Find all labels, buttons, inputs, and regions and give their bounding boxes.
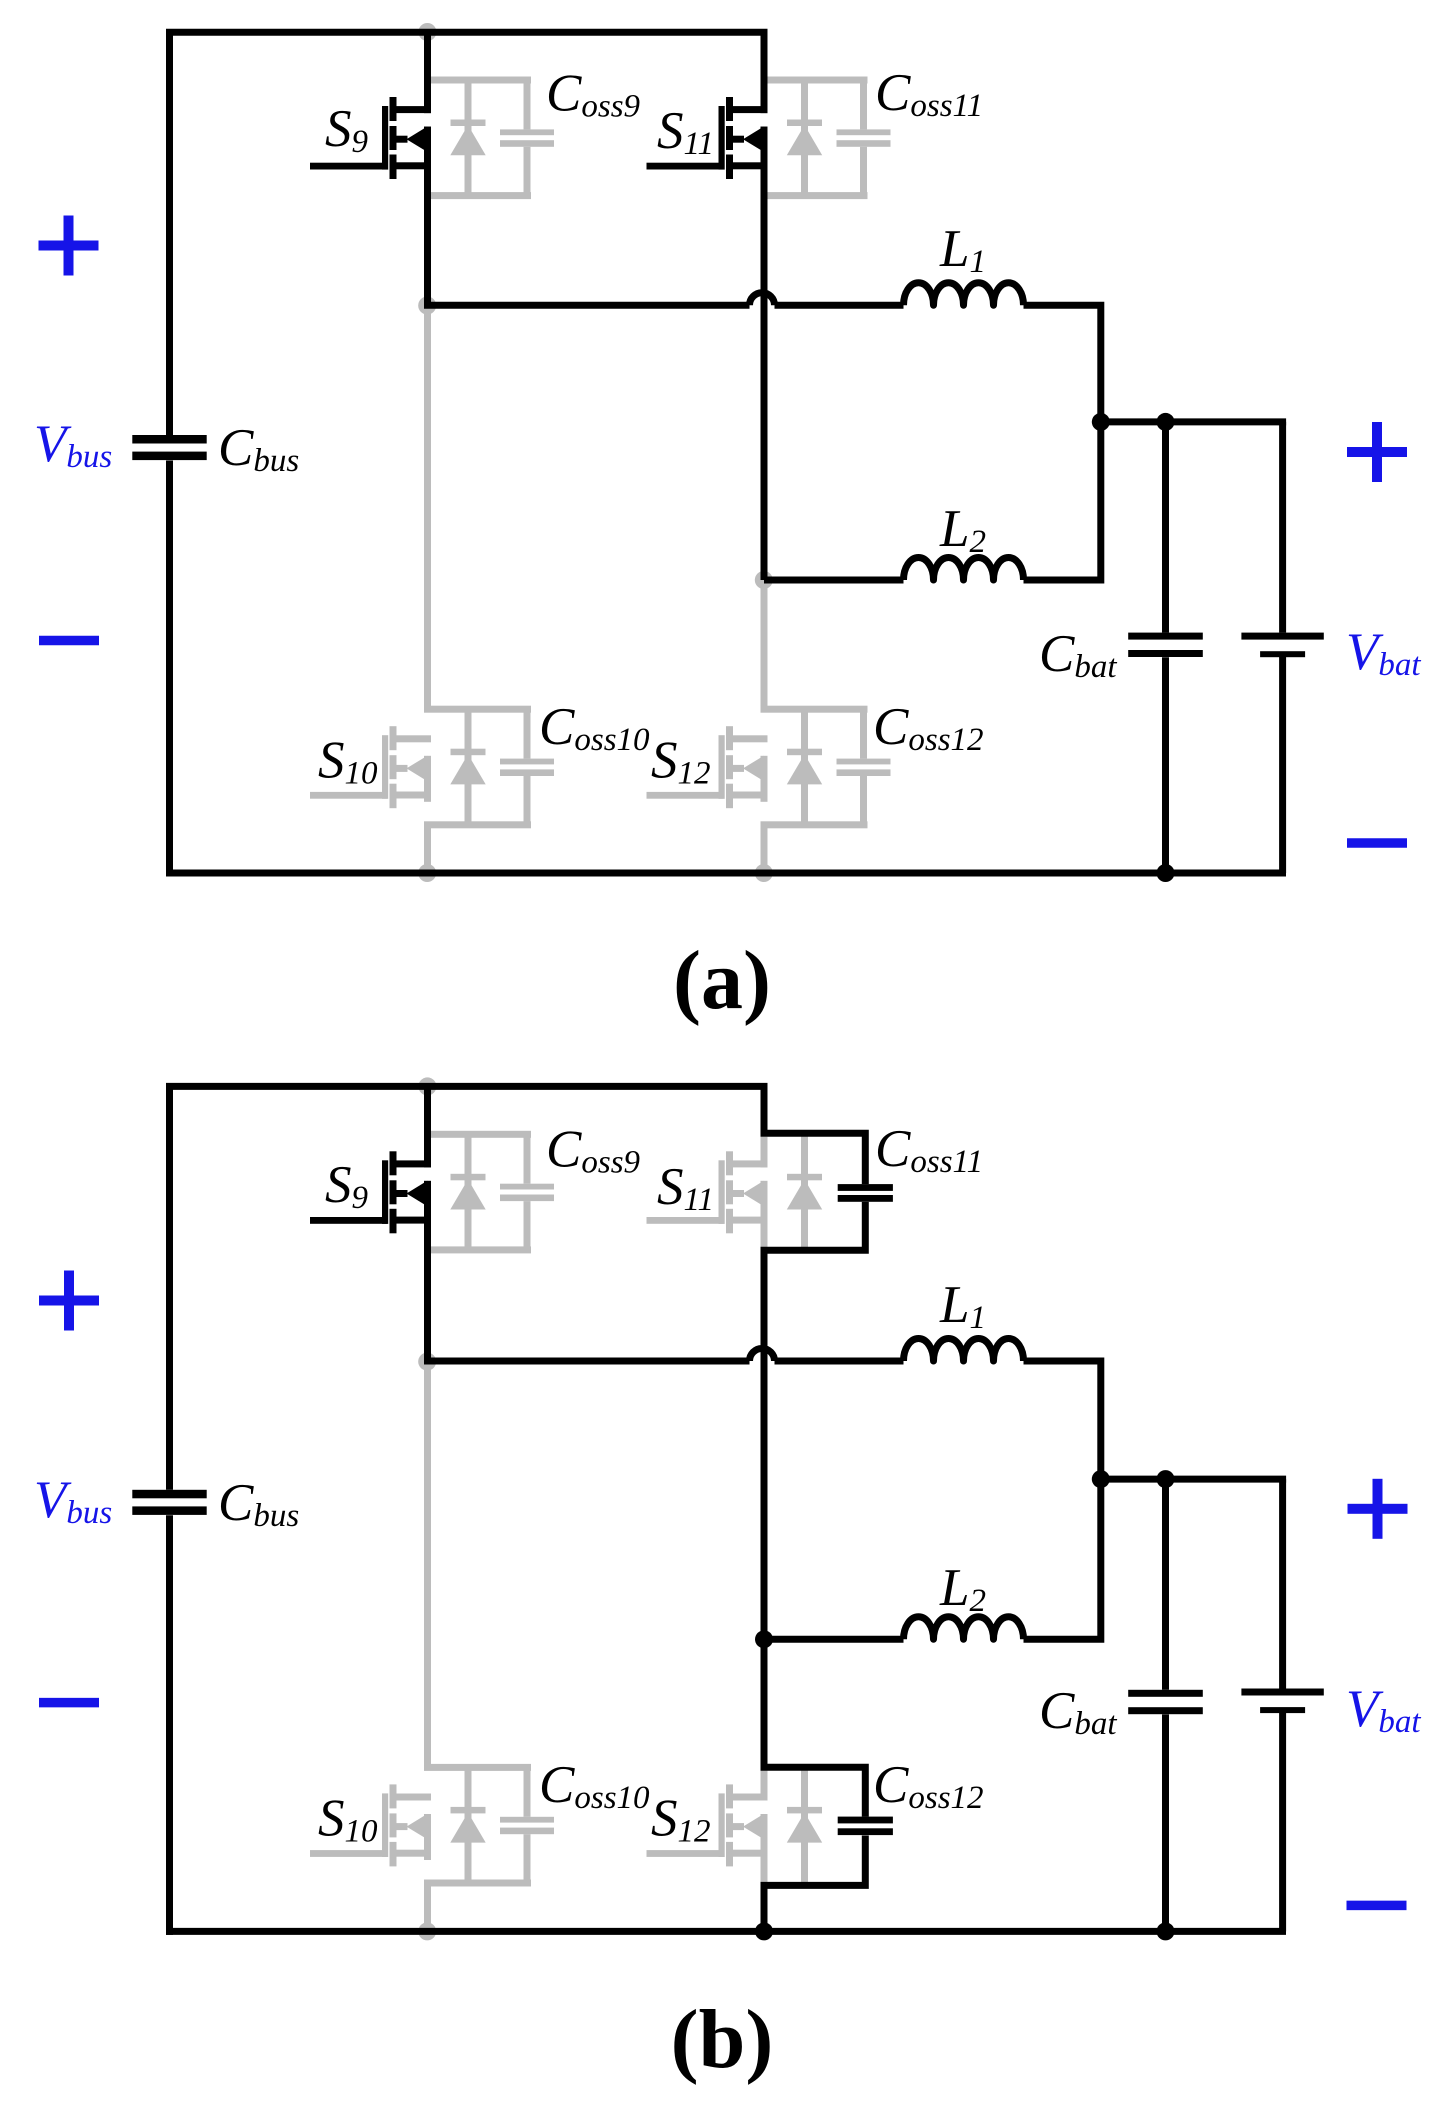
snubber network Coss10 [424, 706, 554, 829]
node: Cbat bottom tap [1157, 1922, 1175, 1940]
transistor S12 (inactive, gray) [647, 726, 768, 808]
polarity - (bus side) [39, 1698, 99, 1708]
snubber network Coss11 (body diode + output capacitance) [761, 77, 891, 200]
wire: hop to inductor L1 [775, 1358, 904, 1365]
node: gray junction marker on top rail at S9 drain [418, 23, 436, 41]
wire: hop to inductor L1 [775, 302, 904, 309]
capacitor Cbat [1128, 633, 1203, 640]
polarity - (battery side) [1347, 838, 1407, 848]
body diode of S12 (gray) [787, 1767, 822, 1883]
wire: gray source lead of S10 to bottom rail [424, 825, 431, 873]
capacitor Cbus [132, 1490, 206, 1499]
battery Vbat [1241, 1689, 1323, 1696]
wire: gray source lead of S10 to bottom rail [424, 1883, 431, 1931]
wire: L1 to join column [1024, 305, 1101, 422]
transistor S10 (inactive, gray) [310, 726, 431, 808]
node: gray junction marker on top rail at S9 drain [418, 1077, 436, 1095]
snubber network Coss9 (body diode + output capacitance) [424, 77, 554, 200]
wire: gray source lead of S11 [761, 1181, 768, 1250]
wire: left rail lower segment [166, 1515, 173, 1935]
body diode of S11 (gray) [787, 1134, 822, 1250]
inductor L1 [904, 1339, 1024, 1362]
inductor L1 [904, 283, 1024, 306]
snubber network Coss9 (body diode + output capacitance) [424, 1131, 554, 1254]
wire: bottom rail [166, 1928, 1286, 1935]
wire: battery positive lead [1279, 1479, 1286, 1688]
wire: L2 to join column [1024, 1479, 1101, 1639]
node: Cbat tap [1157, 1470, 1175, 1488]
node: L1/L2 join [1092, 1470, 1110, 1488]
svg-text:(b): (b) [671, 1993, 774, 2086]
wire: gray drain lead of S12 [761, 580, 768, 709]
wire: left rail upper segment [166, 1083, 173, 1490]
wire: gray drain lead of S10 [424, 1362, 431, 1768]
wire: S9 source down to node A [424, 1181, 431, 1361]
wire: left rail upper segment [166, 29, 173, 435]
transistor S11 (MOSFET) [647, 97, 768, 179]
wire: L2 node to inductor L2 [764, 1636, 904, 1643]
wire: S11 source down to L2 node [761, 127, 768, 580]
polarity + (battery side) [1348, 1504, 1408, 1514]
wire: hop over S11 column [750, 1349, 775, 1362]
node A: gray junction marker, S9 source / S10 drain [418, 1353, 436, 1371]
polarity + (bus side) [39, 241, 99, 251]
node: gray junction marker on bottom rail #1 [418, 864, 436, 882]
wire: Cbat lower lead [1162, 1714, 1169, 1931]
capacitor Coss11 (charged, black) [838, 1184, 893, 1191]
wire: node A to wire hop [424, 302, 750, 309]
node B: gray junction marker, S11 source / S12 drain [755, 571, 773, 589]
wire: top rail [166, 29, 768, 36]
wire: Coss12 bottom loop to bottom rail [764, 1836, 865, 1932]
polarity + (bus side) [39, 1296, 99, 1306]
capacitor Coss12 (charged, black) [838, 1817, 893, 1824]
node: Cbat tap [1157, 413, 1175, 431]
node A: gray junction marker, S9 source / S10 drain [418, 297, 436, 315]
wire: hop over S11 column [750, 293, 775, 306]
svg-text:(a): (a) [673, 934, 771, 1027]
battery Vbat [1241, 633, 1323, 640]
node: gray junction marker on bottom rail #2 [755, 864, 773, 882]
snubber network Coss10 [424, 1764, 554, 1887]
wire: gray drain lead of S11 [761, 1137, 768, 1168]
node: gray junction marker on bottom rail #1 [418, 1922, 436, 1940]
wire: join to battery branch [1101, 418, 1286, 425]
wire: S9 drain to top rail [424, 1086, 431, 1167]
wire: node A to wire hop [424, 1358, 750, 1365]
inductor L2 [904, 1617, 1024, 1640]
wire: join to battery branch [1101, 1476, 1286, 1483]
wire: bottom rail [166, 870, 1286, 877]
inductor L2 [904, 558, 1024, 581]
wire: L2 to join column [1024, 422, 1101, 580]
capacitor Cbat [1128, 1690, 1203, 1697]
node: S12 / L2 junction [755, 1630, 773, 1648]
wire: Cbat lower lead [1162, 657, 1169, 873]
wire: battery positive lead [1279, 422, 1286, 633]
snubber network Coss12 [761, 706, 891, 829]
wire: S11 drain to top rail [761, 32, 768, 113]
wire: L2 node to inductor L2 [764, 577, 904, 584]
transistor S9 (MOSFET) [310, 1151, 431, 1233]
wire: Cbat upper lead [1162, 422, 1169, 633]
transistor S11 (inactive, gray) [647, 1151, 768, 1233]
polarity - (bus side) [39, 636, 99, 646]
wire: left rail lower segment [166, 461, 173, 877]
transistor S9 (MOSFET) [310, 97, 431, 179]
polarity + (battery side) [1347, 447, 1407, 457]
node: S12 bottom rail junction [755, 1922, 773, 1940]
polarity - (battery side) [1347, 1901, 1407, 1911]
wire: S9 source down to node A [424, 127, 431, 306]
wire: top rail [166, 1083, 768, 1090]
capacitor Cbus [132, 435, 206, 444]
transistor S12 (inactive, gray) [647, 1784, 768, 1866]
node: L1/L2 join [1092, 413, 1110, 431]
wire: gray drain lead of S10 [424, 306, 431, 710]
wire: battery negative lead [1279, 655, 1286, 873]
wire: S9 drain to top rail [424, 32, 431, 113]
wire: gray source lead of S12 [761, 1814, 768, 1885]
wire: L1 to join column [1024, 1361, 1101, 1479]
wire: gray source lead of S12 to bottom rail [761, 825, 768, 873]
wire: top rail corner down to Coss11 loop [764, 1086, 865, 1184]
wire: Coss11 bottom loop back to switch-node column [764, 1202, 865, 1639]
wire: battery negative lead [1279, 1711, 1286, 1932]
node: Cbat bottom tap [1157, 864, 1175, 882]
wire: L2 node down to Coss12 loop [764, 1639, 865, 1816]
wire: Cbat upper lead [1162, 1479, 1169, 1690]
wire: gray drain lead of S12 [761, 1769, 768, 1801]
transistor S10 (inactive, gray) [310, 1784, 431, 1866]
